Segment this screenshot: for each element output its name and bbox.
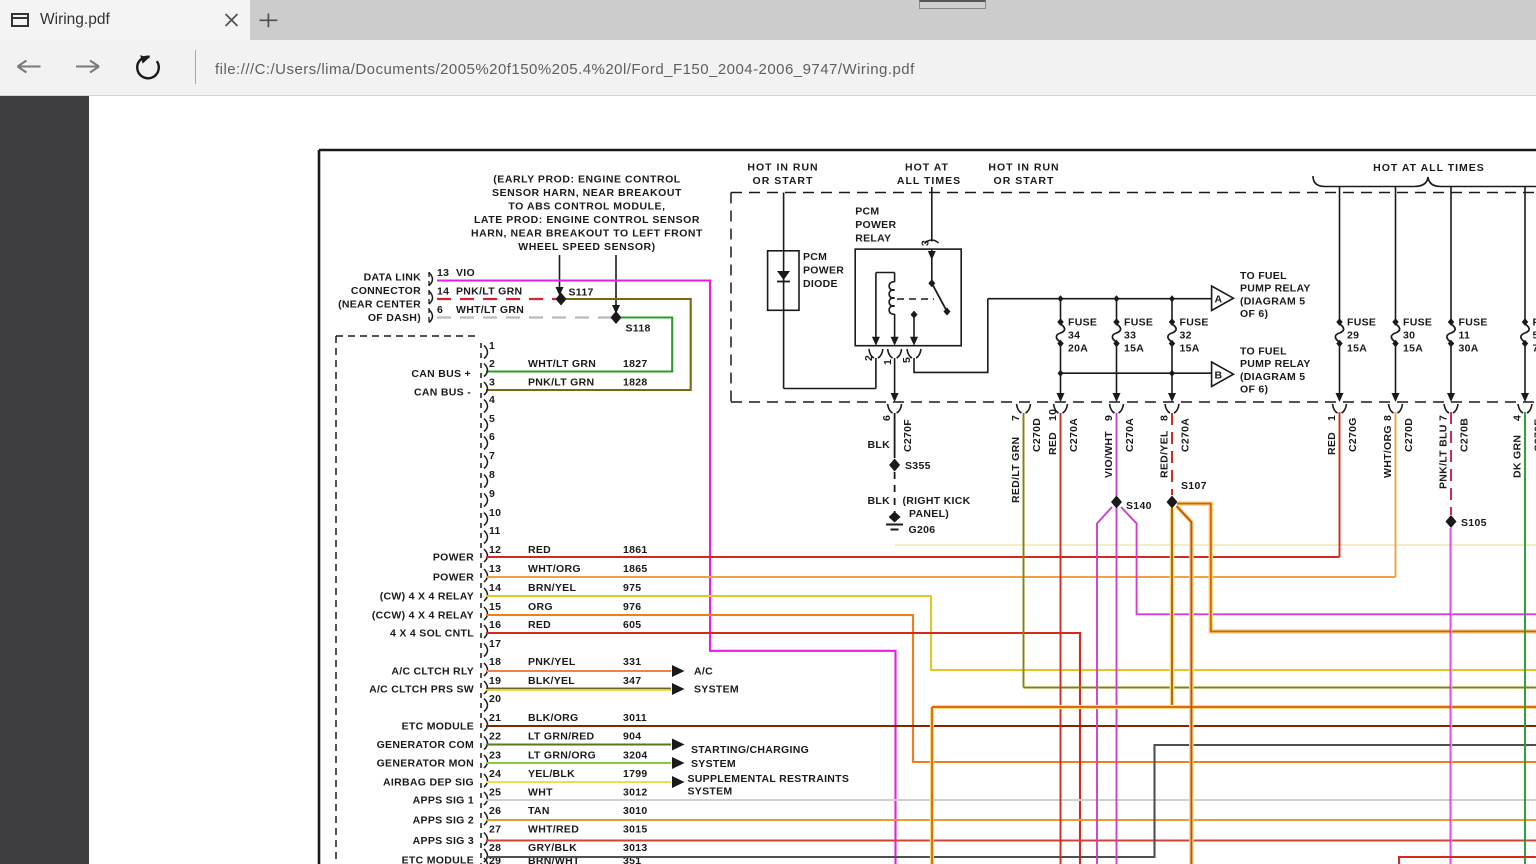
svg-text:ETC MODULE: ETC MODULE — [402, 855, 474, 864]
svg-text:C270D: C270D — [1403, 418, 1415, 452]
svg-text:PCM: PCM — [855, 206, 879, 218]
svg-text:BLK: BLK — [868, 495, 891, 507]
svg-text:(EARLY PROD: ENGINE CONTROL: (EARLY PROD: ENGINE CONTROL — [493, 174, 681, 186]
svg-text:HOT IN RUN: HOT IN RUN — [747, 162, 818, 174]
svg-text:APPS SIG 3: APPS SIG 3 — [413, 835, 474, 847]
svg-text:3: 3 — [920, 240, 932, 246]
svg-text:S118: S118 — [626, 323, 651, 335]
svg-text:OF 6): OF 6) — [1240, 308, 1268, 320]
svg-text:FUSE: FUSE — [1180, 317, 1209, 329]
svg-text:(DIAGRAM 5: (DIAGRAM 5 — [1240, 295, 1305, 307]
svg-text:6: 6 — [881, 415, 893, 421]
svg-text:2: 2 — [489, 358, 495, 370]
svg-text:WHT/LT GRN: WHT/LT GRN — [528, 358, 596, 370]
svg-text:S355: S355 — [905, 460, 931, 472]
svg-text:RED/LT GRN: RED/LT GRN — [1010, 437, 1022, 503]
svg-text:PUMP RELAY: PUMP RELAY — [1240, 358, 1311, 370]
svg-text:APPS SIG 2: APPS SIG 2 — [413, 815, 474, 827]
svg-text:S107: S107 — [1181, 480, 1207, 492]
svg-text:(CCW) 4 X 4 RELAY: (CCW) 4 X 4 RELAY — [372, 610, 474, 622]
svg-text:331: 331 — [623, 656, 641, 668]
svg-text:18: 18 — [489, 656, 501, 668]
svg-text:1861: 1861 — [623, 544, 648, 556]
svg-text:28: 28 — [489, 842, 501, 854]
svg-text:WHT/ORG: WHT/ORG — [528, 563, 581, 575]
svg-text:15A: 15A — [1180, 343, 1200, 355]
svg-text:WHEEL SPEED SENSOR): WHEEL SPEED SENSOR) — [518, 241, 655, 253]
svg-text:WHT/RED: WHT/RED — [528, 824, 579, 836]
svg-text:ETC MODULE: ETC MODULE — [402, 721, 474, 733]
svg-text:HOT AT ALL TIMES: HOT AT ALL TIMES — [1373, 162, 1485, 174]
svg-text:27: 27 — [489, 824, 501, 836]
svg-text:C270B: C270B — [1459, 418, 1471, 452]
svg-text:PANEL): PANEL) — [909, 508, 949, 520]
svg-text:6: 6 — [489, 431, 495, 443]
svg-text:RED/YEL: RED/YEL — [1159, 430, 1171, 478]
svg-text:LT GRN/RED: LT GRN/RED — [528, 731, 595, 743]
svg-text:3204: 3204 — [623, 750, 648, 762]
svg-text:VIO: VIO — [456, 267, 475, 279]
svg-text:(DIAGRAM 5: (DIAGRAM 5 — [1240, 371, 1305, 383]
svg-text:605: 605 — [623, 619, 641, 631]
svg-text:30: 30 — [1403, 330, 1415, 342]
svg-text:PNK/YEL: PNK/YEL — [528, 656, 576, 668]
svg-text:B: B — [1215, 370, 1223, 382]
svg-text:G206: G206 — [909, 524, 936, 536]
svg-text:OR START: OR START — [753, 175, 814, 187]
svg-text:4 X 4 SOL CNTL: 4 X 4 SOL CNTL — [390, 628, 474, 640]
svg-text:C270A: C270A — [1180, 418, 1192, 452]
svg-text:WHT/LT GRN: WHT/LT GRN — [456, 304, 524, 316]
svg-text:TO FUEL: TO FUEL — [1240, 270, 1287, 282]
svg-text:OR START: OR START — [994, 175, 1055, 187]
svg-text:BLK: BLK — [868, 439, 891, 451]
svg-text:12: 12 — [489, 544, 501, 556]
svg-text:5: 5 — [901, 357, 913, 363]
svg-text:3012: 3012 — [623, 787, 648, 799]
svg-text:YEL/BLK: YEL/BLK — [528, 768, 575, 780]
svg-text:3011: 3011 — [623, 712, 647, 724]
svg-text:4: 4 — [489, 394, 495, 406]
svg-text:14: 14 — [489, 582, 501, 594]
svg-text:BRN/YEL: BRN/YEL — [528, 582, 576, 594]
svg-text:ALL TIMES: ALL TIMES — [897, 175, 961, 187]
svg-text:C270G: C270G — [1347, 417, 1359, 452]
svg-text:TAN: TAN — [528, 805, 550, 817]
svg-text:13: 13 — [489, 563, 501, 575]
svg-text:1799: 1799 — [623, 768, 648, 780]
svg-text:AIRBAG DEP SIG: AIRBAG DEP SIG — [383, 777, 474, 789]
svg-text:6: 6 — [437, 304, 443, 316]
svg-text:347: 347 — [623, 675, 641, 687]
svg-text:1: 1 — [882, 359, 894, 365]
svg-text:OF DASH): OF DASH) — [368, 312, 421, 324]
svg-text:GENERATOR MON: GENERATOR MON — [377, 758, 474, 770]
svg-text:POWER: POWER — [433, 572, 474, 584]
svg-text:SYSTEM: SYSTEM — [691, 758, 736, 770]
svg-text:HOT IN RUN: HOT IN RUN — [988, 162, 1059, 174]
svg-text:11: 11 — [489, 525, 501, 537]
svg-text:TO FUEL: TO FUEL — [1240, 346, 1287, 358]
svg-text:C270E: C270E — [1533, 418, 1536, 452]
svg-text:5: 5 — [489, 413, 495, 425]
svg-text:C270A: C270A — [1124, 418, 1136, 452]
svg-text:PNK/LT BLU: PNK/LT BLU — [1438, 424, 1450, 489]
svg-text:1827: 1827 — [623, 358, 648, 370]
svg-text:SYSTEM: SYSTEM — [688, 786, 733, 798]
svg-text:RED: RED — [528, 619, 551, 631]
svg-text:1: 1 — [1326, 415, 1338, 421]
svg-text:1: 1 — [489, 340, 495, 352]
svg-text:POWER: POWER — [855, 219, 896, 231]
svg-text:16: 16 — [489, 619, 501, 631]
svg-text:22: 22 — [489, 731, 501, 743]
svg-text:(NEAR CENTER: (NEAR CENTER — [338, 299, 421, 311]
svg-text:RED: RED — [1326, 432, 1338, 455]
svg-text:BLK/YEL: BLK/YEL — [528, 675, 575, 687]
svg-text:S117: S117 — [569, 287, 594, 299]
svg-text:34: 34 — [1068, 330, 1080, 342]
svg-text:DK GRN: DK GRN — [1512, 435, 1524, 478]
svg-text:29: 29 — [1347, 330, 1359, 342]
svg-text:FUSE: FUSE — [1403, 317, 1432, 329]
svg-text:20A: 20A — [1068, 343, 1088, 355]
svg-text:17: 17 — [489, 638, 501, 650]
svg-text:3013: 3013 — [623, 842, 648, 854]
svg-text:A/C CLTCH PRS SW: A/C CLTCH PRS SW — [369, 684, 474, 696]
svg-text:32: 32 — [1180, 330, 1192, 342]
svg-text:BLK/ORG: BLK/ORG — [528, 712, 579, 724]
svg-text:A/C: A/C — [694, 666, 713, 678]
svg-text:PUMP RELAY: PUMP RELAY — [1240, 283, 1311, 295]
svg-text:53: 53 — [1533, 330, 1536, 342]
svg-text:14: 14 — [437, 286, 449, 298]
svg-text:9: 9 — [489, 488, 495, 500]
svg-text:WHT/ORG: WHT/ORG — [1382, 425, 1394, 478]
svg-text:19: 19 — [489, 675, 501, 687]
svg-text:APPS SIG 1: APPS SIG 1 — [413, 795, 474, 807]
svg-text:10: 10 — [489, 507, 501, 519]
svg-text:ORG: ORG — [528, 601, 553, 613]
svg-text:TO ABS CONTROL MODULE,: TO ABS CONTROL MODULE, — [508, 201, 665, 213]
svg-text:LT GRN/ORG: LT GRN/ORG — [528, 750, 596, 762]
svg-text:9: 9 — [1103, 415, 1115, 421]
svg-text:976: 976 — [623, 601, 641, 613]
svg-text:8: 8 — [489, 469, 495, 481]
svg-text:8: 8 — [1159, 415, 1171, 421]
svg-text:S140: S140 — [1126, 500, 1152, 512]
svg-text:26: 26 — [489, 805, 501, 817]
svg-text:FUSE: FUSE — [1347, 317, 1376, 329]
svg-text:STARTING/CHARGING: STARTING/CHARGING — [691, 744, 809, 756]
svg-text:PCM: PCM — [803, 251, 827, 263]
svg-text:SUPPLEMENTAL RESTRAINTS: SUPPLEMENTAL RESTRAINTS — [688, 773, 850, 785]
svg-text:15A: 15A — [1403, 343, 1423, 355]
svg-text:25: 25 — [489, 787, 501, 799]
svg-text:904: 904 — [623, 731, 641, 743]
svg-text:11: 11 — [1459, 330, 1471, 342]
svg-text:7.5A: 7.5A — [1533, 343, 1536, 355]
svg-text:CAN BUS -: CAN BUS - — [414, 387, 471, 399]
svg-text:1828: 1828 — [623, 377, 648, 389]
svg-text:10: 10 — [1047, 409, 1059, 421]
svg-text:24: 24 — [489, 768, 501, 780]
svg-text:POWER: POWER — [803, 265, 844, 277]
svg-text:RED: RED — [528, 544, 551, 556]
svg-text:15A: 15A — [1347, 343, 1367, 355]
svg-text:FUSE: FUSE — [1124, 317, 1153, 329]
svg-text:WHT: WHT — [528, 787, 553, 799]
svg-text:21: 21 — [489, 712, 501, 724]
svg-text:A: A — [1215, 294, 1223, 306]
svg-text:1865: 1865 — [623, 563, 648, 575]
svg-text:7: 7 — [1010, 415, 1022, 421]
svg-text:DIODE: DIODE — [803, 278, 838, 290]
svg-text:GRY/BLK: GRY/BLK — [528, 842, 577, 854]
svg-text:C270F: C270F — [902, 419, 914, 452]
svg-text:(RIGHT KICK: (RIGHT KICK — [903, 495, 971, 507]
svg-text:RELAY: RELAY — [855, 233, 891, 245]
svg-text:(CW) 4 X 4 RELAY: (CW) 4 X 4 RELAY — [380, 591, 474, 603]
svg-text:FUSE: FUSE — [1459, 317, 1488, 329]
svg-text:CAN BUS +: CAN BUS + — [411, 368, 471, 380]
svg-text:7: 7 — [489, 450, 495, 462]
svg-text:13: 13 — [437, 267, 449, 279]
svg-text:LATE PROD: ENGINE CONTROL SENS: LATE PROD: ENGINE CONTROL SENSOR — [474, 214, 700, 226]
svg-text:HARN, NEAR BREAKOUT TO LEFT FR: HARN, NEAR BREAKOUT TO LEFT FRONT — [471, 228, 703, 240]
svg-text:HOT AT: HOT AT — [905, 162, 949, 174]
svg-text:C270D: C270D — [1031, 418, 1043, 452]
svg-text:4: 4 — [1512, 415, 1524, 421]
svg-text:23: 23 — [489, 750, 501, 762]
svg-text:OF 6): OF 6) — [1240, 384, 1268, 396]
svg-text:2: 2 — [863, 355, 875, 361]
svg-text:3: 3 — [489, 377, 495, 389]
svg-text:S105: S105 — [1461, 517, 1487, 529]
svg-text:20: 20 — [489, 693, 501, 705]
svg-text:PNK/LT GRN: PNK/LT GRN — [456, 286, 522, 298]
svg-text:975: 975 — [623, 582, 641, 594]
svg-text:7: 7 — [1438, 415, 1450, 421]
svg-text:RED: RED — [1047, 432, 1059, 455]
svg-text:GENERATOR COM: GENERATOR COM — [377, 739, 474, 751]
svg-text:PNK/LT GRN: PNK/LT GRN — [528, 377, 594, 389]
svg-text:30A: 30A — [1459, 343, 1479, 355]
svg-text:15: 15 — [489, 601, 501, 613]
svg-text:SENSOR HARN, NEAR BREAKOUT: SENSOR HARN, NEAR BREAKOUT — [492, 187, 682, 199]
svg-text:33: 33 — [1124, 330, 1136, 342]
svg-text:3015: 3015 — [623, 824, 648, 836]
svg-text:DATA LINK: DATA LINK — [364, 272, 421, 284]
svg-text:CONNECTOR: CONNECTOR — [351, 285, 421, 297]
svg-text:VIO/WHT: VIO/WHT — [1103, 431, 1115, 478]
svg-text:SYSTEM: SYSTEM — [694, 684, 739, 696]
svg-text:A/C CLTCH RLY: A/C CLTCH RLY — [391, 666, 474, 678]
svg-text:15A: 15A — [1124, 343, 1144, 355]
svg-text:C270A: C270A — [1068, 418, 1080, 452]
svg-text:POWER: POWER — [433, 552, 474, 564]
svg-text:3010: 3010 — [623, 805, 648, 817]
svg-text:8: 8 — [1382, 415, 1394, 421]
svg-text:FUSE: FUSE — [1068, 317, 1097, 329]
svg-text:FUSE: FUSE — [1533, 317, 1536, 329]
